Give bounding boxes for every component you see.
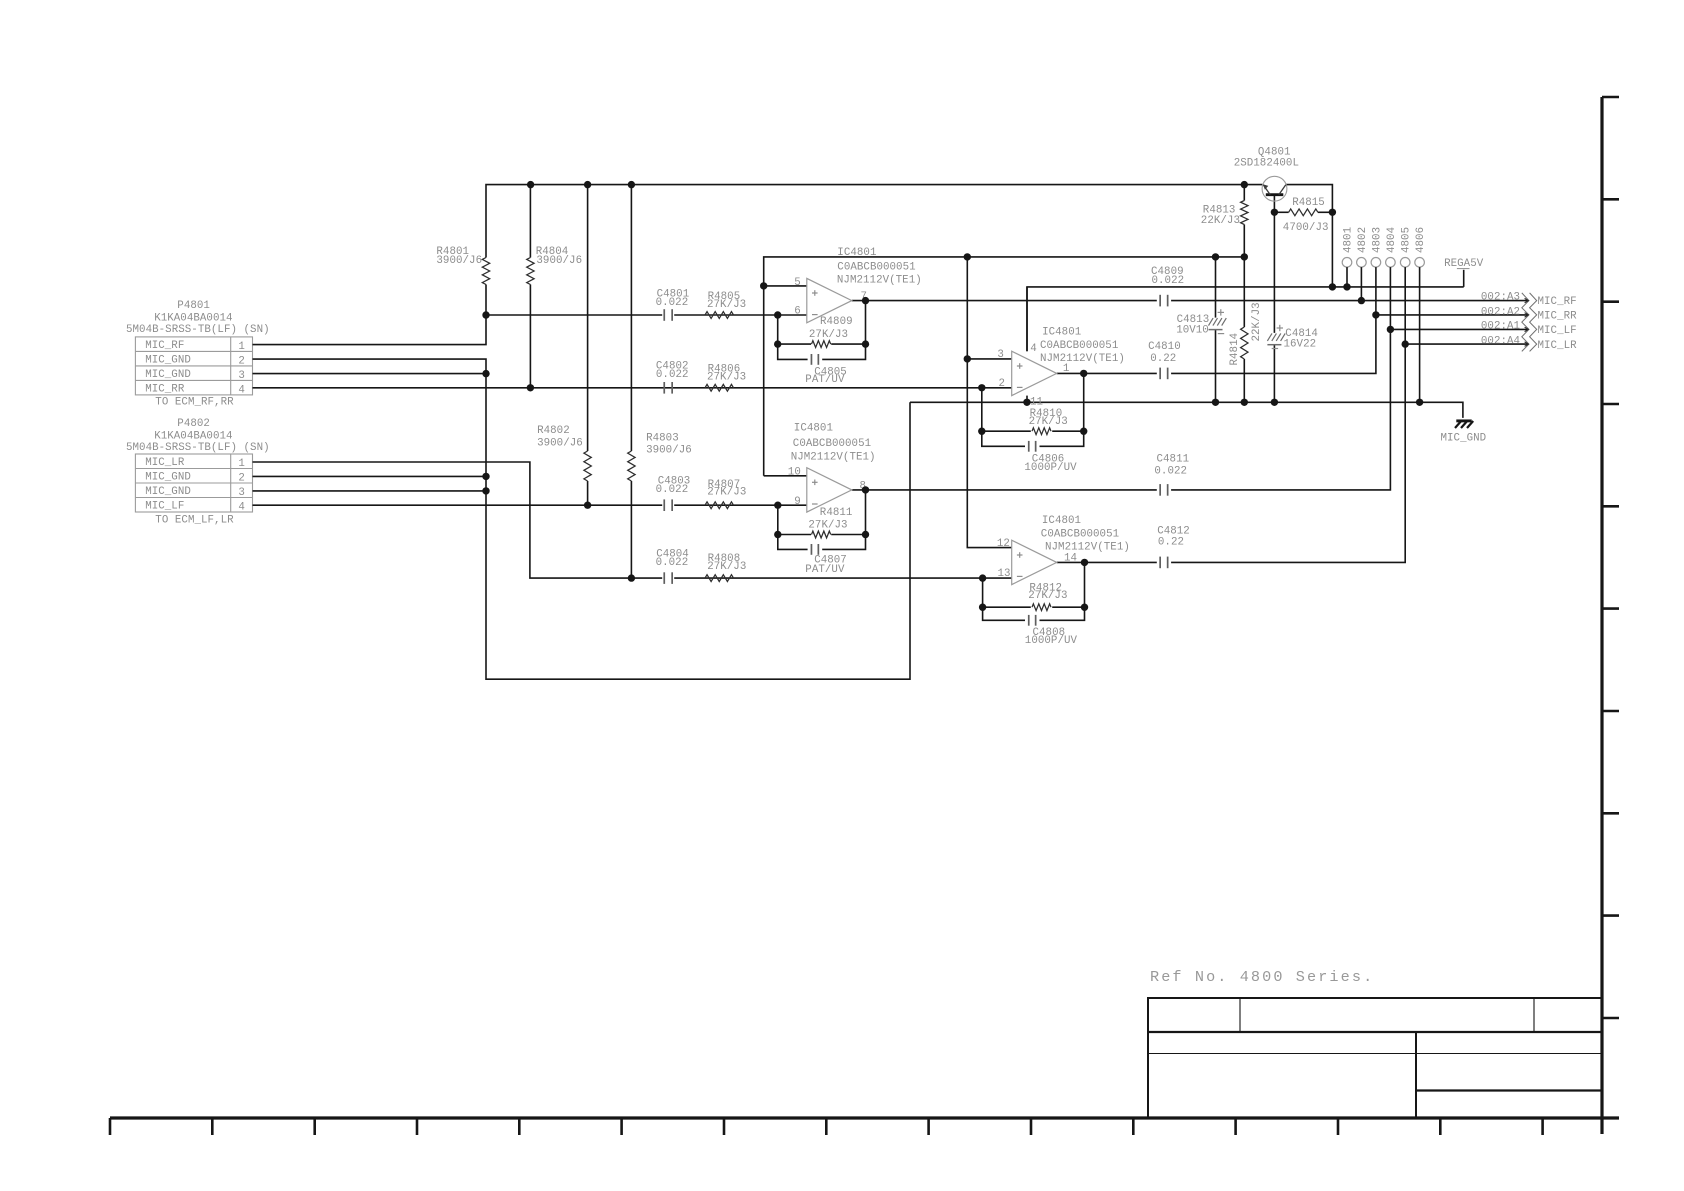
title block outer frame (1148, 998, 1602, 1118)
svg-text:11: 11 (1030, 396, 1043, 408)
svg-text:2: 2 (999, 378, 1006, 390)
resistor R4811 (812, 531, 831, 538)
svg-text:P4801: P4801 (177, 300, 210, 312)
svg-text:22K/J3: 22K/J3 (1201, 215, 1240, 227)
svg-text:4802: 4802 (1357, 227, 1369, 253)
svg-text:C4810: C4810 (1148, 341, 1181, 353)
wire op-amp2 feedback loop (778, 505, 808, 549)
ground MIC_GND (1456, 419, 1471, 422)
svg-text:C0ABCB000051: C0ABCB000051 (793, 438, 871, 450)
resistor R4806 (705, 384, 733, 391)
connector arrows to sheet 002 (1522, 293, 1529, 352)
test pin 4805 (1400, 258, 1410, 268)
wire bias rail from emitter (486, 185, 1262, 258)
resistor R4808 (705, 575, 733, 582)
wire C4801 to R4805 to pin6 (674, 314, 807, 316)
capacitor C4813 10V10 electrolytic (1209, 318, 1214, 326)
svg-text:0.22: 0.22 (1158, 536, 1184, 548)
svg-text:5M04B-SRSS-TB(LF) (SN): 5M04B-SRSS-TB(LF) (SN) (126, 324, 270, 336)
svg-text:16V22: 16V22 (1284, 338, 1317, 350)
svg-text:4: 4 (238, 502, 245, 514)
svg-text:22K/J3: 22K/J3 (1251, 302, 1263, 341)
svg-text:4700/J3: 4700/J3 (1283, 222, 1329, 234)
wire op-amp3 pin11 stub (1026, 396, 1028, 403)
svg-text:MIC_GND: MIC_GND (145, 369, 191, 381)
svg-text:MIC_RR: MIC_RR (1538, 311, 1578, 323)
connector P4802 (135, 454, 252, 512)
svg-text:3900/J6: 3900/J6 (537, 437, 583, 449)
connector P4801 (135, 337, 252, 395)
wire R4815 leads (1274, 211, 1288, 213)
op-amp IC4801 unit D (1012, 540, 1057, 584)
svg-text:4806: 4806 (1415, 227, 1427, 253)
wire op-amp1 feedback loop (778, 315, 808, 359)
capacitor C4802 0.022 (663, 382, 665, 394)
wire C4813 branch (1215, 257, 1217, 318)
svg-text:NJM2112V(TE1): NJM2112V(TE1) (791, 452, 876, 464)
wire op-amp4 feedback loop (983, 578, 1025, 620)
svg-text:27K/J3: 27K/J3 (707, 371, 746, 383)
svg-text:NJM2112V(TE1): NJM2112V(TE1) (1040, 353, 1125, 365)
svg-text:3: 3 (238, 487, 245, 499)
svg-text:2SD182400L: 2SD182400L (1234, 157, 1299, 169)
svg-text:IC4801: IC4801 (837, 247, 876, 259)
svg-text:002:A3: 002:A3 (1481, 291, 1520, 303)
svg-text:2: 2 (238, 356, 245, 368)
test pin 4801 (1342, 258, 1352, 268)
wire bias bus (764, 257, 1245, 476)
test pin 4802 (1357, 258, 1367, 268)
capacitor C4810 0.22 (1159, 368, 1161, 380)
wire op-amp3 pin3 stub (967, 358, 1011, 360)
wire MIC_RR arrow row (1376, 314, 1528, 316)
svg-text:27K/J3: 27K/J3 (808, 520, 847, 532)
svg-text:27K/J3: 27K/J3 (707, 487, 746, 499)
capacitor C4804 0.022 (663, 572, 665, 584)
resistor R4809 (812, 341, 831, 348)
svg-text:C0ABCB000051: C0ABCB000051 (837, 261, 915, 273)
bottom border tick marks (109, 1118, 112, 1135)
title block center divider (1415, 1032, 1417, 1118)
resistor R4805 (705, 312, 733, 319)
svg-text:R4803: R4803 (646, 432, 679, 444)
wire P4802 pin3 MIC_GND (253, 490, 487, 492)
wire C4803 to pin9 (674, 504, 807, 506)
svg-text:1: 1 (238, 458, 245, 470)
svg-text:3900/J6: 3900/J6 (536, 255, 582, 267)
svg-text:C0ABCB000051: C0ABCB000051 (1041, 529, 1119, 541)
svg-text:MIC_LF: MIC_LF (145, 501, 184, 513)
svg-text:9: 9 (794, 496, 801, 508)
svg-text:1000P/UV: 1000P/UV (1024, 462, 1077, 474)
svg-text:27K/J3: 27K/J3 (809, 329, 848, 341)
svg-text:1: 1 (238, 341, 245, 353)
svg-text:Ref No. 4800 Series.: Ref No. 4800 Series. (1150, 968, 1374, 986)
wire P4801 pin2 MIC_GND (253, 359, 911, 679)
capacitor C4811 0.022 (1159, 484, 1161, 496)
title block header divider left (1239, 998, 1241, 1032)
wire R4802 branch (587, 185, 589, 451)
wire collector to REGA5V (1286, 185, 1332, 287)
capacitor C4806 1000P/UV (1028, 441, 1030, 452)
svg-text:27K/J3: 27K/J3 (707, 299, 746, 311)
svg-text:4804: 4804 (1386, 227, 1398, 253)
capacitor C4814 16V22 electrolytic (1267, 333, 1272, 341)
svg-text:MIC_LR: MIC_LR (145, 457, 185, 469)
svg-text:3900/J6: 3900/J6 (436, 255, 482, 267)
svg-text:MIC_RR: MIC_RR (145, 384, 185, 396)
wire op-amp3 feedback R branch (982, 430, 1031, 432)
svg-text:C4811: C4811 (1157, 453, 1190, 465)
capacitor C4801 0.022 (663, 309, 665, 321)
svg-text:0.022: 0.022 (656, 484, 689, 496)
svg-text:MIC_LR: MIC_LR (1538, 340, 1578, 352)
svg-text:002:A1: 002:A1 (1481, 321, 1520, 333)
title block header row line (1148, 1031, 1602, 1033)
wire C4812 to MIC_LR riser (1171, 344, 1405, 562)
svg-text:27K/J3: 27K/J3 (707, 561, 746, 573)
svg-text:PAT/UV: PAT/UV (805, 564, 845, 576)
svg-text:4803: 4803 (1371, 227, 1383, 253)
svg-text:14: 14 (1064, 552, 1077, 564)
svg-text:5: 5 (794, 277, 801, 289)
svg-text:0.022: 0.022 (1154, 465, 1187, 477)
svg-text:R4811: R4811 (820, 507, 853, 519)
svg-text:0.022: 0.022 (656, 557, 689, 569)
wire C4810 to MIC_RR riser (1171, 315, 1376, 374)
svg-text:002:A2: 002:A2 (1481, 307, 1520, 319)
test pin 4804 (1386, 258, 1396, 268)
capacitor C4812 0.22 (1159, 557, 1161, 569)
svg-text:R4815: R4815 (1292, 197, 1325, 209)
wire C4811 to MIC_LF riser (1171, 329, 1390, 490)
svg-text:NJM2112V(TE1): NJM2112V(TE1) (837, 274, 922, 286)
svg-text:0.022: 0.022 (1152, 275, 1185, 287)
wire R4801 to C4801 (486, 314, 662, 316)
wire op-amp2 pin10 stub (764, 475, 807, 477)
wire op-amp1 output to C4809 (852, 300, 1157, 302)
wire ground bus (910, 402, 1463, 418)
title block right thick rule (1416, 1089, 1602, 1091)
svg-text:0.022: 0.022 (656, 297, 689, 309)
resistor R4807 (705, 502, 733, 509)
svg-text:NJM2112V(TE1): NJM2112V(TE1) (1045, 542, 1130, 554)
capacitor C4808 1000P/UV (1028, 615, 1030, 626)
wire R4813 R4814 branch (1243, 185, 1245, 201)
wire P4801 pin1 MIC_RF (253, 315, 487, 345)
resistor R4815 (1289, 209, 1318, 216)
capacitor C4809 0.022 (1159, 295, 1161, 307)
svg-text:MIC_GND: MIC_GND (145, 355, 191, 367)
wire Q4801 base branch (1273, 195, 1275, 333)
svg-text:K1KA04BA0014: K1KA04BA0014 (154, 312, 232, 324)
svg-text:IC4801: IC4801 (794, 423, 833, 435)
wire op-amp3 output to C4810 (1057, 372, 1084, 374)
svg-text:4805: 4805 (1401, 227, 1413, 253)
wire op-amp4 output to C4812 (1057, 561, 1157, 563)
resistor R4801 (482, 258, 489, 285)
wire P4802 pin1 MIC_LR detour (253, 462, 663, 578)
wire R4803 branch (630, 185, 632, 451)
svg-text:27K/J3: 27K/J3 (1029, 416, 1068, 428)
test pin 4803 (1371, 258, 1381, 268)
capacitor C4803 0.022 (663, 499, 665, 511)
svg-text:MIC_RF: MIC_RF (145, 340, 184, 352)
op-amp IC4801 unit B (807, 468, 852, 512)
junction dots (527, 181, 534, 188)
svg-text:4: 4 (238, 385, 245, 397)
wire op-amp2 output to C4811 (852, 489, 1157, 491)
svg-text:MIC_RF: MIC_RF (1538, 296, 1577, 308)
svg-text:R4809: R4809 (820, 316, 853, 328)
svg-text:TO ECM_RF,RR: TO ECM_RF,RR (155, 396, 234, 408)
wire MIC_LF arrow row (1390, 328, 1528, 330)
wire op-amp plus input rail (967, 257, 1011, 548)
wire op-amp2 feedback R branch (778, 534, 811, 536)
capacitor C4805 PAT/UV (810, 354, 812, 365)
resistor R4802 (584, 451, 591, 481)
svg-text:3: 3 (997, 349, 1004, 361)
wire REGA5V rail (1027, 287, 1464, 351)
resistor R4804 (527, 258, 534, 285)
capacitor C4807 PAT/UV (810, 544, 812, 555)
op-amp IC4801 unit C (1012, 351, 1057, 395)
svg-text:MIC_LF: MIC_LF (1538, 325, 1577, 337)
svg-text:TO ECM_LF,LR: TO ECM_LF,LR (155, 514, 234, 526)
wire op-amp1 pin5 stub (764, 285, 807, 287)
resistor R4812 (1032, 604, 1051, 611)
resistor R4810 (1032, 428, 1051, 435)
svg-text:K1KA04BA0014: K1KA04BA0014 (154, 430, 232, 442)
transistor Q4801 2SD182400L (1262, 176, 1287, 201)
wire op-amp3 feedback loop (982, 388, 1025, 447)
resistor R4814 (1241, 327, 1248, 359)
test pin 4806 (1415, 258, 1425, 268)
svg-text:3900/J6: 3900/J6 (646, 445, 692, 457)
svg-text:12: 12 (997, 538, 1010, 550)
svg-text:MIC_GND: MIC_GND (1441, 432, 1487, 444)
svg-text:4801: 4801 (1342, 227, 1354, 253)
svg-text:0.022: 0.022 (656, 369, 689, 381)
svg-text:IC4801: IC4801 (1042, 327, 1081, 339)
svg-text:10: 10 (788, 467, 801, 479)
svg-text:2: 2 (238, 473, 245, 485)
wire C4804 to pin13 (674, 577, 1012, 579)
drawing sheet right border (1600, 97, 1603, 1134)
svg-text:PAT/UV: PAT/UV (805, 374, 845, 386)
wire R4801 lower lead (485, 285, 487, 316)
drawing sheet bottom border (110, 1116, 1619, 1119)
wire op-amp3 pin1 drop (1083, 373, 1085, 431)
svg-text:1000P/UV: 1000P/UV (1025, 635, 1078, 647)
wire op-amp4 feedback R branch (983, 606, 1031, 608)
op-amp IC4801 unit A (807, 278, 852, 322)
svg-text:6: 6 (794, 306, 801, 318)
right border tick marks (1602, 96, 1619, 99)
svg-text:IC4801: IC4801 (1042, 515, 1081, 527)
wire R4804 branch (529, 185, 531, 258)
wire C4809 to MIC_RF arrow (1171, 300, 1528, 302)
svg-text:R4802: R4802 (537, 425, 570, 437)
svg-text:0.22: 0.22 (1150, 353, 1176, 365)
svg-text:C0ABCB000051: C0ABCB000051 (1040, 340, 1118, 352)
svg-text:27K/J3: 27K/J3 (1028, 590, 1067, 602)
title block header divider right (1533, 998, 1535, 1032)
svg-text:MIC_GND: MIC_GND (145, 472, 191, 484)
svg-text:13: 13 (998, 568, 1011, 580)
svg-text:3: 3 (238, 370, 245, 382)
resistor R4803 (628, 451, 635, 481)
svg-text:R4814: R4814 (1229, 333, 1241, 366)
svg-text:MIC_GND: MIC_GND (145, 486, 191, 498)
svg-text:10V10: 10V10 (1176, 324, 1209, 336)
resistor R4813 (1241, 201, 1248, 225)
svg-text:002:A4: 002:A4 (1481, 335, 1520, 347)
svg-text:P4802: P4802 (177, 418, 210, 430)
svg-text:5M04B-SRSS-TB(LF) (SN): 5M04B-SRSS-TB(LF) (SN) (126, 442, 270, 454)
wire op-amp3 pin4 stub (1026, 287, 1028, 351)
wire P4802 pin2 MIC_GND (253, 475, 487, 477)
wire MIC_RR net (253, 387, 1012, 389)
wire MIC_LR arrow row (1405, 343, 1528, 345)
title block thin rule (1148, 1053, 1602, 1055)
svg-text:4: 4 (1030, 343, 1037, 355)
wire op-amp1 feedback R branch (778, 343, 811, 345)
wire MIC_LF net (253, 504, 663, 506)
wire P4801 pin3 MIC_GND (253, 373, 487, 375)
